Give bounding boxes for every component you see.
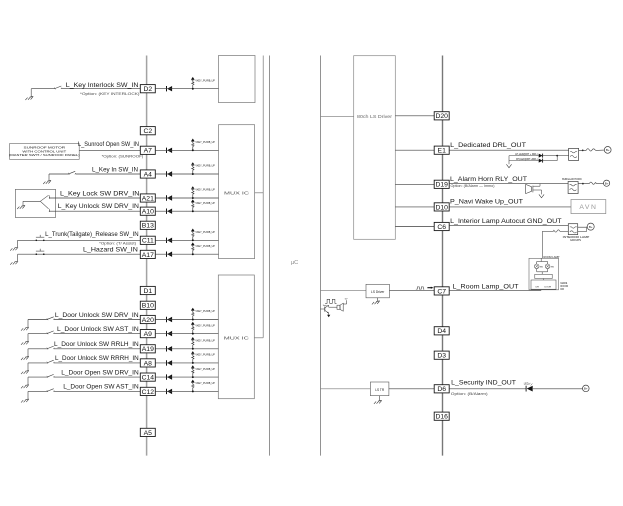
diode D2	[166, 148, 168, 153]
svg-text:VKEY_PU/RB_UP: VKEY_PU/RB_UP	[195, 381, 215, 385]
svg-text:Option: (B/Alarm — Immo): Option: (B/Alarm — Immo)	[451, 184, 495, 188]
svg-text:B+: B+	[589, 225, 593, 229]
svg-text:80ch LS Driver: 80ch LS Driver	[357, 114, 393, 119]
battery B+ node	[583, 385, 590, 392]
switch S1	[31, 88, 55, 90]
pin D19	[434, 180, 449, 188]
wire to IC	[155, 149, 218, 151]
wire to IC	[155, 333, 218, 335]
pull-up resistor	[192, 362, 194, 364]
ground G5	[27, 320, 29, 328]
burglar horn	[526, 184, 532, 193]
wire uC to LS driver	[321, 290, 367, 292]
wire to IC	[155, 319, 218, 321]
right connector column line	[442, 56, 444, 456]
wire	[54, 319, 140, 321]
svg-text:VKEY_PU/RB_UP: VKEY_PU/RB_UP	[195, 339, 215, 343]
pin D16	[434, 412, 449, 420]
svg-text:B+: B+	[584, 387, 588, 391]
lamp switch block	[535, 274, 552, 278]
pull-up resistor	[192, 239, 194, 241]
svg-text:C14: C14	[142, 374, 155, 381]
svg-text:VKEY_PU/RB_UP: VKEY_PU/RB_UP	[195, 140, 215, 144]
buzzer BZ1	[328, 305, 330, 307]
wire driver to E1	[395, 149, 434, 151]
svg-text:DOOR: DOOR	[545, 287, 552, 289]
ground G2	[48, 174, 50, 181]
ground G4	[17, 254, 19, 261]
buzzer sub-circuit	[325, 299, 336, 303]
svg-text:A17: A17	[142, 252, 154, 259]
wire	[54, 333, 140, 335]
ground G12	[379, 396, 381, 401]
svg-text:L_Door Open SW DRV_IN: L_Door Open SW DRV_IN	[61, 369, 139, 376]
wire D19 to relay	[449, 183, 568, 185]
pull-up resistor	[192, 197, 194, 199]
DRL relay K1	[569, 148, 579, 160]
wire D10 to AVN	[449, 206, 571, 208]
pull-up resistor	[192, 390, 194, 392]
AVN unit box	[571, 200, 606, 214]
PWM wave symbol	[416, 287, 424, 289]
bus line to MUX ICs	[262, 56, 264, 338]
microcontroller left border	[268, 56, 270, 456]
svg-text:L_Security IND_OUT: L_Security IND_OUT	[451, 380, 516, 387]
svg-text:VKEY_PU/RB_UP: VKEY_PU/RB_UP	[195, 323, 215, 327]
svg-text:L_Dedicated DRL_OUT: L_Dedicated DRL_OUT	[450, 142, 526, 149]
diode D1	[166, 86, 168, 91]
pin A5	[140, 428, 155, 436]
fuse F2	[589, 182, 596, 184]
pin A8	[140, 359, 155, 367]
wire	[62, 88, 141, 90]
diode D12	[166, 374, 168, 379]
IC box U1	[219, 56, 256, 103]
wire uC to LS TR	[321, 388, 371, 390]
wire uC to LS driver (D20 row)	[321, 115, 354, 117]
svg-text:A10: A10	[142, 209, 154, 216]
fuse F3	[560, 230, 568, 232]
MUX IC U2	[219, 125, 255, 259]
pin A19	[140, 345, 155, 353]
pin B13	[140, 221, 155, 229]
pin D10	[434, 203, 449, 211]
svg-text:ROOM LAMP: ROOM LAMP	[544, 255, 560, 259]
pull-up resistor	[192, 253, 194, 255]
wire driver to D20	[395, 115, 434, 117]
wire MUX2 to bus	[255, 192, 264, 194]
ground G1	[30, 89, 32, 97]
svg-text:D6: D6	[437, 386, 446, 393]
svg-text:A4: A4	[144, 171, 153, 178]
svg-text:(MASTER SW'H / SUNROOF PANEL): (MASTER SW'H / SUNROOF PANEL)	[9, 153, 80, 157]
ground G10	[27, 391, 29, 399]
svg-text:L_Key Unlock SW DRV_IN: L_Key Unlock SW DRV_IN	[58, 203, 139, 210]
LS Driver box U5	[366, 284, 389, 298]
svg-text:D3: D3	[437, 353, 446, 360]
svg-text:RH,LED(DRT+DRL): RH,LED(DRT+DRL)	[516, 158, 538, 161]
diode LH LED	[539, 154, 543, 158]
svg-text:MUX IC: MUX IC	[224, 335, 250, 340]
svg-text:MUX IC: MUX IC	[224, 190, 250, 195]
svg-text:A8: A8	[144, 360, 153, 367]
svg-text:A19: A19	[142, 346, 154, 353]
battery B+ node	[604, 147, 611, 154]
svg-text:Option: (B/Alarm): Option: (B/Alarm)	[451, 392, 488, 396]
svg-text:B10: B10	[142, 303, 154, 310]
breaker bypass loop	[585, 227, 587, 232]
svg-text:B+: B+	[606, 148, 610, 152]
diode D10	[166, 346, 168, 351]
svg-text:LS TR: LS TR	[375, 388, 385, 392]
pull-up resistor	[192, 348, 194, 350]
pull-up resistor	[192, 149, 194, 151]
svg-text:L_Door Open SW AST_IN: L_Door Open SW AST_IN	[63, 384, 139, 391]
diode D4	[166, 195, 168, 200]
pin B10	[140, 301, 155, 309]
svg-text:E1: E1	[438, 148, 447, 155]
svg-text:VKEY_PU/RB_UP: VKEY_PU/RB_UP	[195, 230, 215, 234]
wire	[76, 173, 141, 175]
pin A10	[140, 207, 155, 215]
switch S10	[28, 390, 48, 392]
pin D6	[434, 385, 449, 393]
wire driver to C6	[395, 226, 434, 228]
switch S9	[28, 376, 48, 378]
diode D3	[166, 171, 168, 176]
pin D3	[434, 351, 449, 359]
svg-text:L_Key In SW_IN: L_Key In SW_IN	[92, 167, 138, 174]
key lock/unlock switch box	[15, 189, 55, 217]
wire C6 to breaker	[449, 225, 568, 227]
svg-text:P_Navi Wake Up_OUT: P_Navi Wake Up_OUT	[450, 199, 523, 206]
pin A9	[140, 330, 155, 338]
svg-text:VKEY_PU/RB_UP: VKEY_PU/RB_UP	[195, 188, 215, 192]
svg-text:LH,LED(DRT + DRL): LH,LED(DRT + DRL)	[515, 153, 538, 156]
transistor Q1	[321, 308, 325, 310]
pin E1	[434, 146, 449, 154]
pull-up resistor	[192, 210, 194, 212]
diode RH LED	[539, 159, 543, 163]
svg-text:BURGLAR HORN: BURGLAR HORN	[562, 178, 582, 181]
wire E1 to relay	[449, 149, 568, 151]
interior lamp circuit breaker	[568, 224, 577, 235]
svg-text:µC: µC	[291, 260, 298, 266]
switch S7	[28, 348, 48, 350]
wire driver to D10	[395, 206, 434, 208]
switch S8	[28, 362, 48, 364]
svg-text:L_Door Unlock SW RRRH_IN: L_Door Unlock SW RRRH_IN	[55, 355, 139, 362]
pull-up resistor	[192, 88, 194, 90]
pin D20	[434, 112, 449, 120]
svg-text:L_Room Lamp_OUT: L_Room Lamp_OUT	[453, 283, 519, 290]
ground G3	[17, 240, 19, 247]
svg-text:VKEY_PU/RB_UP: VKEY_PU/RB_UP	[195, 78, 215, 82]
pin C11	[140, 236, 155, 244]
ground G6	[27, 334, 29, 342]
diode D5	[166, 209, 168, 214]
svg-text:C7: C7	[437, 288, 446, 295]
pin A21	[140, 194, 155, 202]
wire LS TR to D6	[389, 388, 434, 390]
svg-text:A20: A20	[142, 317, 154, 324]
pin A17	[140, 250, 155, 258]
diode D13	[166, 389, 168, 394]
row L_Key Unlock SW DRV_IN	[50, 210, 141, 212]
wire to IC	[155, 239, 218, 241]
svg-text:L_Hazard SW_IN: L_Hazard SW_IN	[83, 246, 138, 253]
svg-text:D19: D19	[435, 182, 448, 189]
fuse F1	[586, 149, 595, 151]
svg-text:GROUPS: GROUPS	[570, 238, 581, 242]
wire to IC	[155, 362, 218, 364]
pin A7	[140, 146, 155, 154]
left connector column line	[146, 56, 148, 456]
wire	[54, 376, 140, 378]
wire driver to C7	[389, 290, 434, 292]
push-button switch S4	[18, 253, 141, 255]
diode D8	[166, 317, 168, 322]
pin A4	[140, 170, 155, 178]
svg-text:DR: DR	[536, 287, 540, 289]
svg-text:VKEY_PU/RB_UP: VKEY_PU/RB_UP	[195, 244, 215, 248]
pin D4	[434, 327, 449, 335]
pin D2	[140, 85, 155, 93]
wire driver to D19	[395, 183, 434, 185]
diode D11	[166, 360, 168, 365]
wire	[54, 348, 140, 350]
svg-text:VKEY_PU/RB_UP: VKEY_PU/RB_UP	[195, 164, 215, 168]
pull-up resistor	[192, 173, 194, 175]
svg-text:D2: D2	[143, 86, 152, 93]
battery B+ node	[587, 223, 594, 230]
svg-text:A5: A5	[144, 430, 153, 437]
svg-text:*Option: (T/ Assist): *Option: (T/ Assist)	[99, 242, 136, 246]
diode D7	[166, 252, 168, 257]
pin A20	[140, 315, 155, 323]
wire D6 to LED	[449, 388, 526, 390]
horn relay K2	[568, 182, 578, 194]
svg-text:L_Key Lock SW DRV_IN: L_Key Lock SW DRV_IN	[60, 191, 140, 198]
svg-text:L_Sunroof Open SW_IN: L_Sunroof Open SW_IN	[78, 141, 139, 148]
microcontroller right border	[320, 56, 322, 456]
LS TR box U6	[370, 382, 389, 396]
wire to IC	[155, 197, 218, 199]
battery B+ node	[604, 180, 610, 186]
svg-text:D10: D10	[435, 204, 448, 211]
pin C14	[140, 373, 155, 381]
wire to IC	[155, 173, 218, 175]
svg-text:L_Door Unlock SW DRV_IN: L_Door Unlock SW DRV_IN	[55, 312, 139, 319]
svg-text:LS Driver: LS Driver	[371, 290, 385, 294]
svg-text:VKEY_PU/RB_UP: VKEY_PU/RB_UP	[195, 353, 215, 357]
wire to IC	[155, 376, 218, 378]
svg-text:C6: C6	[437, 224, 446, 231]
row L_Key Lock SW DRV_IN	[50, 197, 141, 199]
push-button switch S3	[18, 239, 141, 241]
svg-text:L_Trunk(Tailgate)_Release SW_I: L_Trunk(Tailgate)_Release SW_IN	[45, 231, 139, 238]
DRL LED branch	[509, 155, 539, 157]
wire to IC	[155, 348, 218, 350]
pin C12	[140, 387, 155, 395]
switch S5	[28, 319, 48, 321]
svg-text:C11: C11	[142, 238, 154, 245]
svg-text:LED: LED	[524, 382, 529, 385]
wire	[54, 390, 140, 392]
svg-text:*Option: (KEY INTERLOCK): *Option: (KEY INTERLOCK)	[80, 92, 140, 96]
svg-text:D1: D1	[143, 288, 152, 295]
svg-text:L_Door Unlock SW RRLH_IN: L_Door Unlock SW RRLH_IN	[54, 341, 139, 348]
svg-text:C2: C2	[143, 128, 152, 135]
wire to IC	[155, 88, 218, 90]
pull-up resistor	[192, 319, 194, 321]
svg-text:D4: D4	[437, 328, 446, 335]
lamp L1	[534, 264, 539, 269]
svg-text:*Option: (SUNROOF): *Option: (SUNROOF)	[102, 155, 144, 159]
svg-text:B13: B13	[142, 223, 154, 230]
pin C6	[434, 222, 449, 230]
svg-text:VKEY_PU/RB_UP: VKEY_PU/RB_UP	[195, 201, 215, 205]
wire to IC	[155, 210, 218, 212]
svg-text:A9: A9	[144, 331, 153, 338]
MUX IC U3	[218, 275, 254, 399]
svg-text:C12: C12	[142, 389, 155, 396]
80ch LS Driver box U4	[354, 56, 396, 240]
pull-up resistor	[192, 376, 194, 378]
switch S2	[49, 173, 69, 175]
lamp feed wires	[540, 258, 542, 261]
svg-text:D16: D16	[435, 414, 448, 421]
svg-text:L_Key Interlock SW_IN: L_Key Interlock SW_IN	[66, 82, 139, 89]
svg-text:A21: A21	[142, 195, 154, 202]
ROOM LAMP box	[529, 258, 559, 290]
wire down to room lamp	[541, 231, 543, 258]
svg-text:L_Alarm Horn RLY_OUT: L_Alarm Horn RLY_OUT	[450, 176, 527, 183]
diode D9	[166, 331, 168, 336]
wire	[79, 149, 140, 151]
wire	[54, 362, 140, 364]
svg-text:L_Door Unlock SW AST_IN: L_Door Unlock SW AST_IN	[57, 326, 139, 333]
svg-text:AVN: AVN	[579, 204, 597, 211]
svg-text:B+: B+	[605, 182, 609, 186]
wire LED to B+	[533, 388, 583, 390]
pin C2	[140, 127, 155, 135]
sunroof motor box	[10, 144, 80, 160]
pin D1	[140, 286, 155, 294]
diode D6	[166, 238, 168, 243]
lamp L2	[545, 264, 550, 269]
wire C7 to room lamp	[449, 290, 541, 292]
ground G7	[27, 349, 29, 357]
ground G9	[27, 377, 29, 385]
svg-text:VKEY_PU/RB_UP: VKEY_PU/RB_UP	[195, 367, 215, 371]
wire MUX3 to bus	[254, 337, 263, 339]
svg-text:VKEY_PU/RB_UP: VKEY_PU/RB_UP	[195, 309, 215, 313]
wire to IC	[155, 253, 218, 255]
svg-text:D20: D20	[435, 113, 448, 120]
pin C7	[434, 287, 449, 295]
pull-up resistor	[192, 333, 194, 335]
wire to IC	[155, 390, 218, 392]
ground G11	[377, 298, 379, 301]
svg-text:L_Interior Lamp Autocut GND_OU: L_Interior Lamp Autocut GND_OUT	[450, 218, 561, 225]
switch S6	[28, 333, 48, 335]
svg-text:A7: A7	[144, 148, 153, 155]
svg-text:DR: DR	[561, 288, 565, 291]
ground G8	[27, 363, 29, 371]
